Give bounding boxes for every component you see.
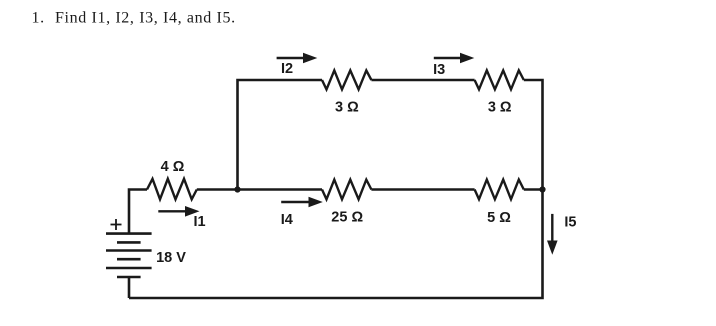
wire: top-left riser and top-left horizontal segment [238,80,323,190]
battery V1 18 V [106,234,152,277]
arrow I1 (current from battery) [158,206,199,217]
wire: middle segment through node A [197,188,322,191]
svg-text:I4: I4 [281,212,293,228]
wire: battery negative stub to bottom wire [128,277,131,298]
resistor R1 4 ohm [147,179,197,200]
svg-text:I1: I1 [193,214,205,230]
battery plus polarity mark [111,219,122,230]
resistor R4 25 ohm [322,180,371,200]
title: problem statement [32,9,236,26]
svg-text:Find I1, I2, I3, I4, and I5.: Find I1, I2, I3, I4, and I5. [55,9,236,26]
resistor R2 3 ohm (top left) [322,70,371,89]
svg-text:25 Ω: 25 Ω [331,210,363,226]
svg-text:5 Ω: 5 Ω [487,210,511,226]
svg-text:I3: I3 [433,62,445,78]
svg-text:18 V: 18 V [156,250,186,266]
wire: top middle segment [371,79,474,82]
node A junction dot [234,186,240,192]
svg-text:4 Ω: 4 Ω [161,159,185,175]
svg-text:I2: I2 [281,61,293,77]
wire: middle-right segment to node B [524,188,543,191]
wire: middle segment between 25 ohm and 5 ohm [371,188,474,191]
svg-text:3 Ω: 3 Ω [488,100,512,116]
wire: middle-left segment from battery positive terminal [129,190,147,234]
arrow I5 (current down right side) [547,214,558,255]
arrow I4 (current into 25 ohm) [281,197,323,208]
svg-text:3 Ω: 3 Ω [335,100,359,116]
resistor R3 3 ohm (top right) [475,70,524,89]
arrow I2 (current direction, top left branch) [277,53,318,64]
svg-text:1.: 1. [32,9,45,26]
wire: top-right corner, right side and bottom return wire [129,80,543,298]
node B junction dot [539,186,545,192]
resistor R5 5 ohm [475,180,524,200]
arrow I3 (current direction, top right branch) [434,53,475,64]
svg-text:I5: I5 [564,215,576,231]
